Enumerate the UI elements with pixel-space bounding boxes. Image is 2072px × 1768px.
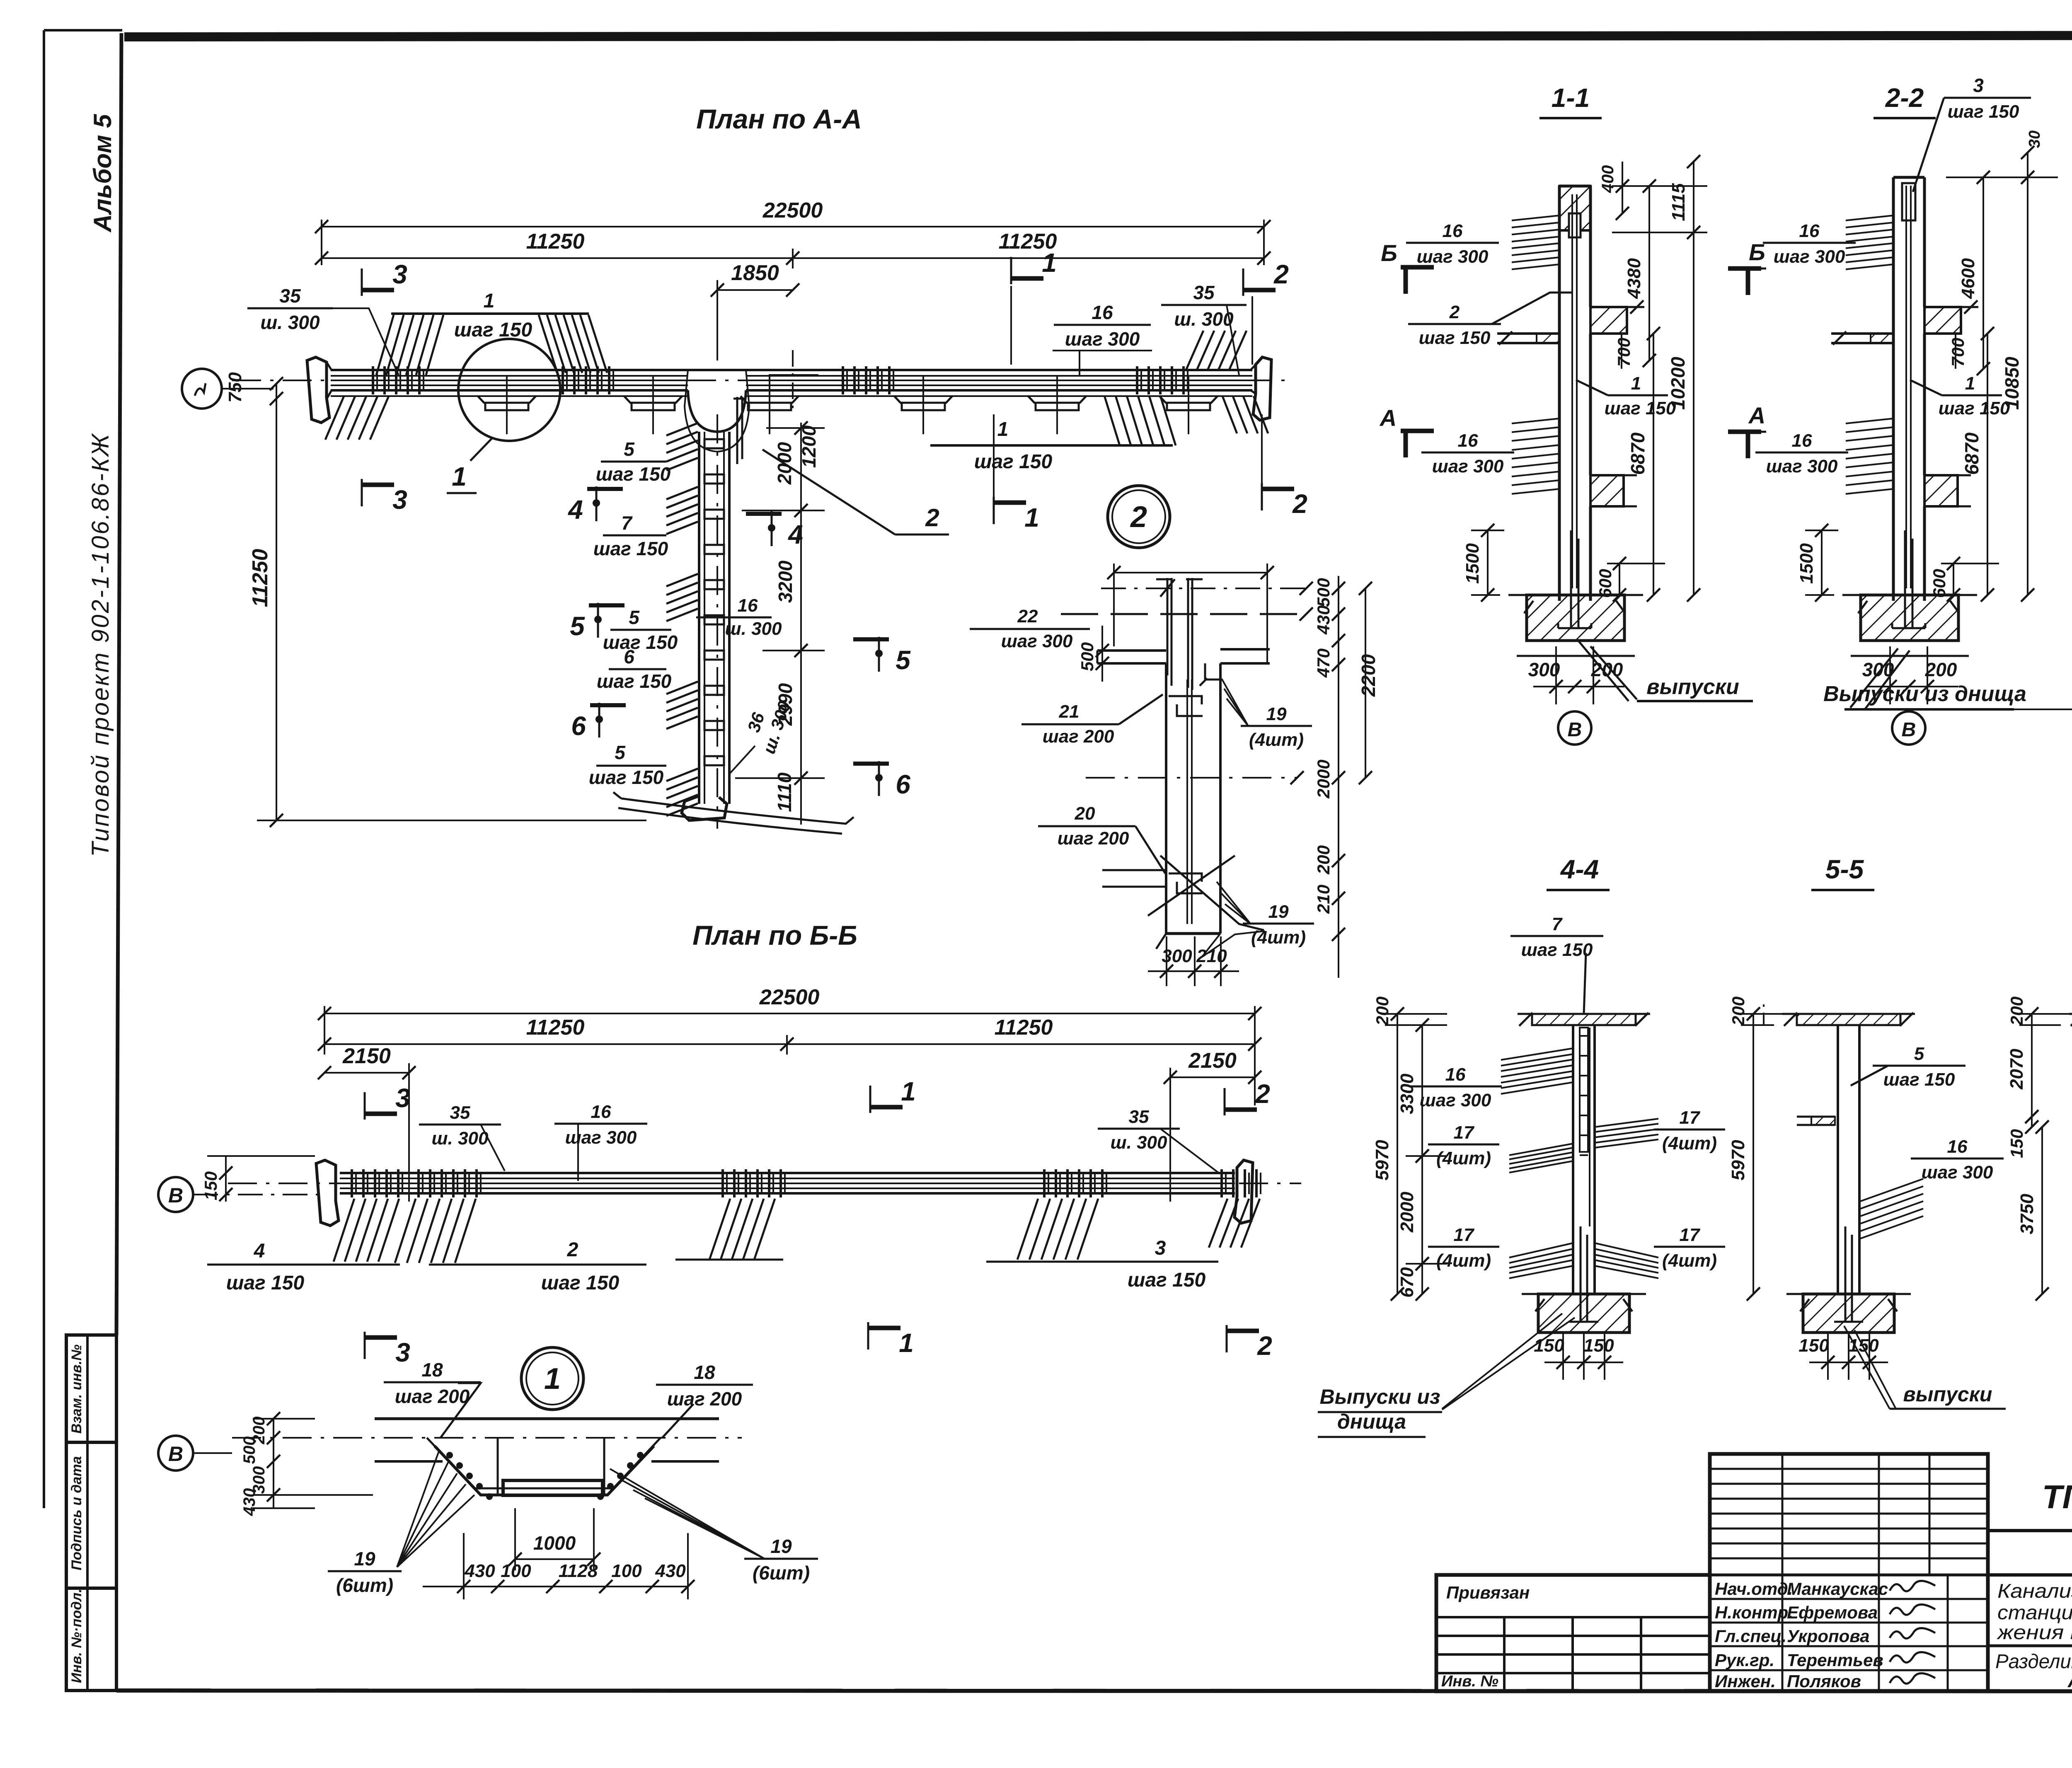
- svg-text:6: 6: [571, 711, 586, 741]
- svg-text:5970: 5970: [1728, 1140, 1748, 1180]
- section 5-5: [1728, 854, 2004, 1380]
- detail 1 labels 18 шаг 200: [384, 1359, 481, 1438]
- svg-text:11250: 11250: [995, 1016, 1053, 1040]
- svg-text:(4шт): (4шт): [1436, 1250, 1491, 1271]
- plan A-A leg left fans: [666, 423, 698, 816]
- svg-text:Разделительная стенка СТм1.: Разделительная стенка СТм1.: [1995, 1651, 2072, 1673]
- svg-text:150: 150: [201, 1171, 220, 1200]
- svg-text:шаг 300: шаг 300: [1922, 1162, 1993, 1183]
- svg-text:(4шт): (4шт): [1662, 1250, 1717, 1271]
- svg-text:2200: 2200: [1358, 654, 1379, 697]
- plan Б-Б В axis circle: [158, 1177, 324, 1212]
- svg-text:16: 16: [1092, 302, 1113, 323]
- svg-text:Подпись и дата: Подпись и дата: [69, 1456, 85, 1570]
- svg-text:30: 30: [2026, 131, 2043, 148]
- svg-text:17: 17: [1454, 1225, 1475, 1245]
- svg-text:19: 19: [354, 1548, 375, 1570]
- svg-text:2: 2: [1255, 1079, 1270, 1109]
- svg-text:шаг 300: шаг 300: [1774, 247, 1845, 267]
- section 2-2: [1755, 75, 2058, 656]
- svg-text:210: 210: [1314, 885, 1333, 914]
- section 5-5 выпуски label: [1844, 1326, 2006, 1409]
- svg-text:6: 6: [624, 646, 634, 668]
- svg-text:Укропова: Укропова: [1787, 1626, 1869, 1646]
- svg-text:2070: 2070: [2007, 1049, 2027, 1090]
- svg-text:17: 17: [1454, 1122, 1475, 1143]
- plan Б-Б mid fan bottom line: [675, 1259, 783, 1261]
- plan Б-Б left end cap: [316, 1160, 339, 1226]
- svg-text:Нач.отд.: Нач.отд.: [1715, 1579, 1793, 1599]
- svg-text:7: 7: [1552, 914, 1563, 934]
- svg-text:В: В: [1568, 719, 1582, 741]
- svg-text:3300: 3300: [1397, 1074, 1417, 1114]
- svg-text:Терентьев: Терентьев: [1787, 1650, 1883, 1670]
- svg-text:Инв. №: Инв. №: [1441, 1673, 1498, 1690]
- svg-text:2000: 2000: [1397, 1192, 1417, 1233]
- svg-text:11250: 11250: [526, 230, 585, 254]
- svg-text:22: 22: [1017, 606, 1038, 626]
- выпуски label section 1-1: [1579, 641, 1753, 701]
- svg-text:шаг 150: шаг 150: [974, 451, 1053, 473]
- svg-text:200: 200: [1372, 996, 1392, 1026]
- svg-text:А: А: [1748, 402, 1765, 428]
- svg-text:1850: 1850: [731, 261, 779, 285]
- plan A-A band axis dash-dot: [232, 380, 1293, 381]
- svg-text:Б: Б: [1381, 240, 1397, 266]
- svg-text:Поляков: Поляков: [1787, 1671, 1861, 1691]
- svg-text:10200: 10200: [1667, 357, 1689, 410]
- svg-text:(6шт): (6шт): [753, 1562, 810, 1584]
- plan A-A marker guide lines: [994, 286, 1262, 497]
- sheet frame left border: [116, 33, 121, 1335]
- svg-text:ш. 300: ш. 300: [725, 619, 782, 639]
- section marker А mid: [1728, 402, 1766, 458]
- plan A-A label 1 шаг 150 bottom: [974, 418, 1053, 473]
- detail 1 label 19 6шт left: [328, 1450, 474, 1596]
- plan A-A wall band right end cap: [1251, 357, 1271, 420]
- svg-text:5: 5: [896, 645, 911, 675]
- plan Б-Б dims 11250: [318, 1016, 1261, 1055]
- detail 2 labels: [970, 606, 1090, 651]
- detail 2 top dim line: [1107, 564, 1274, 663]
- svg-text:1200: 1200: [798, 425, 820, 468]
- plan A-A section markers: [362, 248, 1307, 532]
- svg-text:16: 16: [738, 595, 758, 616]
- plan A-A band bottom profile with bearing pads: [331, 375, 1252, 434]
- svg-text:1-1: 1-1: [1552, 83, 1590, 113]
- svg-text:400: 400: [1599, 165, 1617, 193]
- svg-text:шаг 150: шаг 150: [1605, 398, 1676, 418]
- svg-text:16: 16: [1799, 221, 1820, 241]
- svg-text:Привязан: Привязан: [1446, 1583, 1530, 1602]
- svg-text:1: 1: [1965, 373, 1975, 394]
- section 4-4 Выпуски из днища label: [1318, 1313, 1575, 1437]
- svg-text:700: 700: [1614, 338, 1634, 367]
- svg-text:А: А: [1379, 405, 1397, 431]
- svg-text:шаг 300: шаг 300: [1420, 1090, 1491, 1110]
- svg-text:1128: 1128: [559, 1561, 598, 1581]
- svg-text:1500: 1500: [1796, 543, 1817, 584]
- svg-text:1: 1: [901, 1076, 916, 1106]
- svg-text:19: 19: [770, 1536, 792, 1557]
- detail 1 В axis circle: [158, 1436, 232, 1471]
- svg-text:шаг 300: шаг 300: [1001, 631, 1073, 651]
- svg-text:3: 3: [395, 1337, 410, 1367]
- svg-text:430: 430: [464, 1561, 495, 1581]
- detail 2 slab lines: [1077, 626, 1270, 682]
- detail 2 inner hook top: [1169, 678, 1207, 716]
- plan A-A bottom-right fan 1 шаг 150: [930, 396, 1176, 445]
- plan A-A markers 4,5,6: [567, 486, 911, 799]
- plan A-A label 35 ш.300 right: [1161, 282, 1247, 375]
- svg-text:1115: 1115: [1668, 183, 1689, 221]
- svg-text:19: 19: [1266, 704, 1287, 724]
- svg-text:150: 150: [1583, 1335, 1614, 1356]
- svg-text:шаг 150: шаг 150: [226, 1272, 305, 1294]
- svg-text:ш. 300: ш. 300: [432, 1128, 489, 1149]
- svg-text:Гл.спец.: Гл.спец.: [1715, 1626, 1786, 1646]
- svg-text:22500: 22500: [762, 198, 823, 223]
- svg-text:шаг 300: шаг 300: [1065, 328, 1140, 350]
- plan A-A axis marker circle: [182, 369, 274, 409]
- svg-text:100: 100: [501, 1561, 531, 1581]
- svg-text:2: 2: [1292, 489, 1307, 519]
- svg-text:шаг 300: шаг 300: [1766, 456, 1838, 476]
- plan A-A left vertical dim 11250: [225, 372, 646, 827]
- svg-text:16: 16: [1458, 431, 1478, 451]
- svg-text:ш. 300: ш. 300: [260, 312, 320, 333]
- plan Б-Б fans below band: [334, 1199, 1260, 1263]
- svg-text:750: 750: [225, 372, 245, 403]
- plan A-A right cap fans: [1186, 331, 1268, 433]
- svg-text:1000: 1000: [533, 1532, 576, 1554]
- выпуски из днища label: [1823, 648, 2072, 709]
- svg-text:В: В: [1902, 719, 1916, 741]
- svg-text:шаг 200: шаг 200: [1058, 828, 1129, 849]
- svg-text:500: 500: [1077, 642, 1097, 671]
- svg-text:Б: Б: [1749, 239, 1765, 265]
- svg-text:100: 100: [611, 1561, 642, 1581]
- svg-text:6870: 6870: [1627, 432, 1648, 475]
- svg-text:шаг 300: шаг 300: [1417, 247, 1489, 267]
- detail 2 right dim chain: [1314, 576, 1379, 978]
- section 2-2 bottom dims: [1862, 646, 1958, 704]
- svg-text:5-5: 5-5: [1825, 854, 1864, 884]
- svg-text:В: В: [168, 1442, 183, 1466]
- section 2-2 B circle: [1892, 711, 1925, 745]
- plan A-A label 1 шаг 150 top: [454, 290, 533, 341]
- detail 2 lower bracket: [1102, 856, 1265, 957]
- svg-text:500: 500: [240, 1437, 259, 1464]
- svg-text:35: 35: [1129, 1107, 1149, 1127]
- svg-text:1: 1: [484, 290, 495, 312]
- svg-text:11250: 11250: [526, 1016, 585, 1040]
- svg-text:жения коллектора -7,0м: жения коллектора -7,0м: [1997, 1622, 2072, 1644]
- svg-text:выпуски: выпуски: [1646, 675, 1739, 699]
- svg-text:1: 1: [1631, 373, 1641, 394]
- plan A-A dims 11250+11250: [315, 230, 1271, 268]
- svg-text:(4шт): (4шт): [1662, 1133, 1717, 1154]
- svg-text:шаг 200: шаг 200: [1043, 726, 1114, 747]
- plan Б-Б 150 dim: [201, 1156, 315, 1202]
- svg-text:(4шт): (4шт): [1249, 730, 1304, 750]
- svg-text:3: 3: [1973, 75, 1984, 96]
- svg-text:Н.контр.: Н.контр.: [1715, 1603, 1793, 1622]
- svg-text:шаг 150: шаг 150: [596, 463, 671, 485]
- svg-text:4-4: 4-4: [1560, 854, 1599, 884]
- plan A-A dim 22500: [315, 198, 1271, 265]
- svg-text:670: 670: [1397, 1267, 1417, 1298]
- detail 1 pit studs: [447, 1453, 643, 1499]
- svg-text:шаг 200: шаг 200: [667, 1388, 742, 1410]
- svg-text:днища: днища: [1337, 1410, 1406, 1433]
- svg-text:2000: 2000: [1314, 759, 1333, 798]
- svg-text:шаг 150: шаг 150: [1939, 398, 2010, 418]
- svg-text:3: 3: [392, 259, 407, 289]
- svg-text:35: 35: [450, 1103, 470, 1123]
- svg-text:Канализационная насосная: Канализационная насосная: [1997, 1580, 2072, 1602]
- svg-text:4600: 4600: [1958, 258, 1978, 299]
- svg-text:430: 430: [240, 1488, 259, 1516]
- svg-text:Инжен.: Инжен.: [1715, 1671, 1776, 1691]
- svg-text:шаг 150: шаг 150: [597, 670, 672, 692]
- svg-text:200: 200: [1314, 845, 1333, 875]
- plan A-A junction rebar hooks: [733, 397, 746, 464]
- svg-text:шаг 150: шаг 150: [1948, 102, 2019, 122]
- left margin table (Взам.инв.№ / Подпись и дата / Инв.№ подл.): [66, 1335, 116, 1691]
- svg-text:17: 17: [1680, 1108, 1701, 1128]
- section marker Б left: [1381, 240, 1434, 294]
- svg-text:ш. 300: ш. 300: [1111, 1132, 1168, 1153]
- svg-text:1500: 1500: [1462, 543, 1483, 584]
- svg-text:шаг 150: шаг 150: [541, 1272, 620, 1294]
- svg-text:1: 1: [1024, 503, 1039, 532]
- plan A-A leader to detail 2: [762, 450, 949, 535]
- plan A-A wall band left end cap: [307, 357, 332, 423]
- plan A-A detail mark circled 2: [1108, 486, 1170, 548]
- svg-text:2: 2: [1273, 259, 1289, 289]
- plan Б-Б section markers: [365, 1076, 1272, 1367]
- svg-text:18: 18: [421, 1359, 443, 1381]
- svg-text:Выпуски из: Выпуски из: [1320, 1385, 1440, 1408]
- plan Б-Б dim 22500: [318, 985, 1261, 1105]
- svg-text:16: 16: [1445, 1064, 1466, 1085]
- detail 1 dim 1000: [508, 1508, 600, 1570]
- svg-text:шаг 150: шаг 150: [593, 538, 668, 559]
- svg-text:5: 5: [629, 607, 640, 628]
- svg-text:150: 150: [1534, 1335, 1564, 1356]
- svg-text:150: 150: [2007, 1129, 2026, 1158]
- svg-text:выпуски: выпуски: [1903, 1383, 1992, 1406]
- svg-text:600: 600: [1595, 569, 1615, 598]
- plan A-A dim 1850: [711, 261, 799, 360]
- plan A-A junction arc: [685, 370, 749, 452]
- svg-text:21: 21: [1059, 701, 1080, 722]
- svg-text:2: 2: [1257, 1331, 1272, 1361]
- svg-text:10850: 10850: [2001, 357, 2023, 410]
- section 1-1 bottom dims: [1528, 646, 1624, 704]
- plan Б-Б title: [692, 920, 857, 951]
- svg-text:1: 1: [899, 1328, 914, 1358]
- svg-text:шаг 150: шаг 150: [1521, 940, 1593, 960]
- svg-text:1: 1: [544, 1362, 561, 1396]
- svg-text:(4шт): (4шт): [1436, 1148, 1491, 1168]
- plan A-A vertical wall leg: [699, 414, 729, 829]
- sheet frame bottom border: [116, 1691, 2072, 1691]
- svg-text:1: 1: [452, 462, 467, 491]
- svg-text:2: 2: [567, 1239, 579, 1261]
- svg-text:Взам. инв.№: Взам. инв.№: [69, 1345, 85, 1434]
- svg-text:шаг 150: шаг 150: [1419, 328, 1491, 348]
- plan Б-Б right end cap: [1234, 1160, 1253, 1223]
- svg-text:2: 2: [1449, 302, 1460, 322]
- plan A-A band rebar tick clusters: [373, 366, 1188, 394]
- plan A-A label 35 ш.300 left: [247, 285, 399, 375]
- svg-text:шаг 300: шаг 300: [1432, 456, 1504, 476]
- svg-text:5970: 5970: [1372, 1140, 1392, 1180]
- svg-text:35: 35: [1193, 282, 1215, 303]
- margin text: Альбом 5: [89, 114, 116, 233]
- plan Б-Б dim 2150 right: [1164, 1049, 1261, 1202]
- svg-text:Армирование.: Армирование.: [2067, 1670, 2072, 1692]
- svg-text:4: 4: [787, 520, 803, 549]
- detail 2 bottom dims 300 210: [1148, 936, 1239, 986]
- svg-text:2150: 2150: [342, 1044, 391, 1068]
- svg-text:11250: 11250: [248, 549, 272, 607]
- section 6-6: [2007, 854, 2072, 1380]
- svg-text:150: 150: [1798, 1335, 1829, 1356]
- section 1-1: [1406, 83, 1707, 656]
- svg-text:200: 200: [1925, 659, 1957, 680]
- svg-text:2990: 2990: [775, 683, 796, 726]
- detail 1 slab lines: [232, 1419, 742, 1461]
- svg-text:6: 6: [896, 769, 910, 799]
- svg-text:Типовой проект 902-1-106.86-: Типовой проект 902-1-106.86-КЖ: [87, 433, 114, 857]
- svg-text:2-2: 2-2: [1885, 83, 1924, 113]
- plan A-A wall band slab edge lines: [331, 370, 1252, 390]
- svg-text:1: 1: [1042, 248, 1057, 278]
- svg-text:4: 4: [254, 1240, 265, 1262]
- section 1-1 B circle: [1558, 711, 1591, 745]
- svg-text:16: 16: [591, 1102, 611, 1122]
- plan Б-Б band lines: [228, 1173, 1301, 1193]
- svg-text:(6шт): (6шт): [336, 1575, 393, 1596]
- detail 1 pit: [427, 1438, 661, 1495]
- svg-text:станция при глубине зало-: станция при глубине зало-: [1997, 1602, 2072, 1624]
- svg-text:2: 2: [925, 504, 939, 532]
- title block grid: [1436, 1454, 1988, 1691]
- detail 2 mid dash-dot: [1086, 771, 1304, 784]
- svg-text:3: 3: [392, 485, 407, 515]
- svg-text:150: 150: [1848, 1335, 1879, 1356]
- svg-text:Ефремова: Ефремова: [1787, 1603, 1878, 1622]
- svg-text:шаг 200: шаг 200: [395, 1386, 470, 1407]
- svg-text:20: 20: [1075, 803, 1095, 824]
- plan Б-Б rebar tick clusters: [352, 1169, 1261, 1197]
- plan A-A label 16 шаг 300: [1053, 302, 1152, 375]
- svg-text:Рук.гр.: Рук.гр.: [1715, 1650, 1774, 1670]
- svg-text:430: 430: [1314, 605, 1333, 635]
- svg-text:Альбом 5: Альбом 5: [89, 114, 116, 233]
- svg-text:2150: 2150: [1188, 1049, 1237, 1073]
- svg-text:ТП 902-1·106.86: ТП 902-1·106.86: [2042, 1478, 2072, 1515]
- svg-text:19: 19: [1268, 902, 1289, 922]
- margin text: Типовой проект 902-1-106.86-КЖ: [87, 433, 114, 857]
- svg-text:В: В: [168, 1184, 183, 1207]
- svg-text:470: 470: [1314, 648, 1333, 678]
- svg-text:200: 200: [1728, 996, 1748, 1026]
- svg-text:16: 16: [1792, 431, 1812, 451]
- svg-text:35: 35: [279, 285, 301, 307]
- svg-text:План по Б-Б: План по Б-Б: [692, 920, 857, 951]
- detail 1 circled mark: [521, 1347, 583, 1410]
- svg-text:5: 5: [624, 438, 635, 460]
- detail 2 wall: [1166, 663, 1220, 934]
- section 4-4: [1372, 854, 1725, 1380]
- svg-text:3750: 3750: [2017, 1194, 2037, 1234]
- plan A-A label 16 ш.300 mid: [696, 595, 782, 639]
- svg-text:200: 200: [1591, 659, 1623, 680]
- svg-text:шаг 150: шаг 150: [603, 631, 678, 653]
- plan A-A bottom-left small fan: [325, 396, 389, 440]
- plan A-A leg bottom cap: [613, 792, 854, 834]
- svg-text:16: 16: [1947, 1137, 1968, 1157]
- svg-text:18: 18: [694, 1362, 715, 1383]
- plan Б-Б dim 2150 left: [318, 1044, 416, 1202]
- svg-text:16: 16: [1443, 221, 1463, 241]
- plan A-A right dim chain: [735, 421, 825, 825]
- svg-text:1: 1: [997, 418, 1009, 440]
- svg-text:Инв. №·подл.: Инв. №·подл.: [69, 1589, 85, 1683]
- svg-text:3: 3: [395, 1083, 410, 1113]
- detail 2 top rebar pairs: [1156, 578, 1203, 690]
- svg-text:600: 600: [1929, 569, 1949, 598]
- title block right part: [1988, 1454, 2072, 1692]
- svg-text:шаг 150: шаг 150: [454, 319, 533, 341]
- svg-text:2: 2: [1130, 501, 1147, 534]
- svg-text:200: 200: [2007, 996, 2026, 1026]
- section marker А left: [1379, 405, 1434, 457]
- plan A-A mid centerline mark: [769, 350, 818, 414]
- plan A-A top-left rebar fan (1 шаг 150): [376, 314, 607, 375]
- svg-text:430: 430: [655, 1561, 686, 1581]
- section marker Б mid: [1728, 239, 1766, 295]
- svg-text:17: 17: [1680, 1225, 1701, 1245]
- svg-text:210: 210: [1196, 946, 1227, 966]
- svg-text:6870: 6870: [1961, 432, 1982, 475]
- detail 1 dims 430 100 1128 100 430: [423, 1533, 695, 1599]
- plan A-A detail circle 1: [447, 339, 560, 493]
- svg-text:4380: 4380: [1624, 258, 1644, 299]
- plan A-A label 36 ш.300 rotated: [729, 699, 794, 774]
- svg-text:План по А-А: План по А-А: [696, 104, 862, 134]
- plan Б-Б labels: [207, 1240, 400, 1294]
- svg-text:500: 500: [1314, 578, 1333, 607]
- svg-text:Манкаускас: Манкаускас: [1787, 1579, 1888, 1599]
- svg-text:(4шт): (4шт): [1251, 927, 1306, 948]
- svg-text:3: 3: [1155, 1237, 1166, 1259]
- svg-text:7: 7: [621, 512, 633, 534]
- svg-text:5: 5: [570, 611, 585, 641]
- outer margin line: [44, 30, 122, 1508]
- plan A-A title: [696, 104, 862, 134]
- svg-text:ш. 300: ш. 300: [1174, 308, 1234, 330]
- svg-text:4: 4: [567, 495, 583, 525]
- svg-text:шаг 150: шаг 150: [589, 767, 664, 788]
- title block names: [1715, 1579, 1935, 1691]
- sheet frame top border: [124, 35, 2072, 37]
- svg-text:шаг 300: шаг 300: [565, 1127, 637, 1148]
